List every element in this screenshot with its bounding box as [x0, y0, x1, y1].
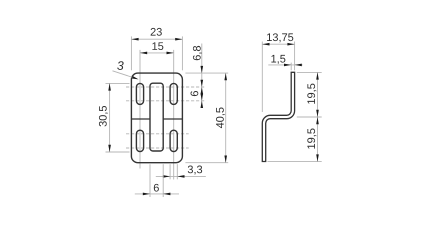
- dim 15 arrow right: [167, 52, 174, 55]
- dim 13,75 arrow right: [287, 43, 294, 46]
- centerline top slots lower arc: [126, 100, 205, 102]
- dim 19,5 extension middle: [297, 116, 322, 118]
- dim 6,8 dim line: [201, 44, 203, 109]
- dim 6 bottom arrow left: [143, 193, 150, 196]
- dim 19,5 upper arrow bottom: [316, 110, 319, 117]
- dim 13,75 arrow left: [262, 43, 269, 46]
- dim 19,5 lower arrow bottom: [316, 154, 319, 161]
- slot bottom-left: [136, 130, 143, 151]
- label 6,8: [193, 46, 202, 60]
- label 1,5: [271, 55, 285, 64]
- centerline left slots vertical: [139, 50, 141, 169]
- label 13,75: [267, 33, 293, 42]
- central channel cutout: [150, 83, 163, 151]
- centerline top slots upper arc: [126, 86, 205, 88]
- plate outline front view: [131, 73, 182, 163]
- dim 23 line: [131, 38, 182, 40]
- dim 23 arrow right: [175, 38, 182, 41]
- dim 23 arrow left: [131, 38, 138, 41]
- slot bottom-right: [170, 130, 177, 151]
- dim 19,5 line: [317, 72, 319, 161]
- dim 3,3 extension left: [169, 164, 171, 179]
- label 19,5 lower: [307, 129, 316, 149]
- dim 6 arrow below mid: [201, 87, 204, 94]
- dim 30,5 line: [109, 83, 111, 152]
- label 15: [152, 42, 163, 50]
- dim 30,5 extension bottom: [106, 151, 130, 153]
- dim 1,5 arrow right: [295, 64, 302, 67]
- dim 19,5 extension top: [297, 71, 322, 73]
- centerline bottom slots lower arc: [126, 147, 189, 149]
- dim 6,8 / 6 / 40,5 shared top extension: [185, 72, 228, 74]
- dim 6 arrow above low: [201, 94, 204, 101]
- label radius 3: [117, 61, 123, 70]
- dim 6,8 arrow above top: [201, 66, 204, 73]
- dim 30,5 extension top: [106, 82, 130, 84]
- dim 15 line: [140, 52, 174, 54]
- label 6 bottom: [154, 184, 159, 192]
- dim 40,5 arrow bottom: [224, 156, 227, 163]
- dim 3,3 arrow left: [163, 175, 170, 178]
- label 40,5: [216, 107, 225, 128]
- dim 19,5 upper arrow top: [316, 72, 319, 79]
- dim 3,3 line: [156, 175, 206, 177]
- dim 13,75 extension left: [261, 42, 263, 113]
- bend line left: [131, 118, 150, 120]
- dim 19,5 extension bottom: [268, 161, 322, 163]
- dim 40,5 bottom extension: [185, 162, 228, 164]
- dim 30,5 arrow top: [108, 83, 111, 90]
- label 23: [151, 28, 162, 36]
- dim 13,75 extension right: [294, 42, 296, 71]
- dim 13,75 line: [262, 43, 294, 45]
- dim 1,5 extension left short: [290, 63, 292, 71]
- dim 30,5 arrow bottom: [108, 145, 111, 152]
- dim 6,8 arrow above mid: [201, 80, 204, 87]
- label 30,5: [99, 106, 108, 127]
- dim 40,5 line: [225, 73, 227, 163]
- dim 6 arrow below low: [201, 101, 204, 108]
- dim 6 bottom extension left: [149, 164, 151, 197]
- dim 23 extension right: [181, 36, 183, 70]
- label 19,5 upper: [307, 84, 316, 104]
- Z profile side view outline: [262, 72, 294, 161]
- centerline bottom slots upper arc: [126, 133, 189, 135]
- dim 40,5 arrow top: [224, 73, 227, 80]
- leader radius 3 arrowhead: [132, 76, 139, 79]
- dim 23 extension left: [130, 36, 132, 70]
- dim 3,3 arrow right: [177, 175, 184, 178]
- dim 6 bottom extension right: [162, 164, 164, 197]
- dim 6 bottom arrow right: [163, 193, 170, 196]
- slot top-right: [170, 83, 177, 104]
- dim 1,5 arrow left: [284, 64, 291, 67]
- bend line right: [163, 118, 182, 120]
- slot top-left: [136, 83, 143, 104]
- dim 3,3 extension right: [176, 164, 178, 179]
- label 3,3: [188, 166, 202, 175]
- dim 6 bottom line: [135, 193, 179, 195]
- leader radius 3 line: [113, 71, 137, 79]
- label 6 right: [191, 91, 199, 96]
- dim 15 arrow left: [140, 52, 147, 55]
- centerline right slots vertical: [173, 50, 175, 180]
- dim 1,5 line: [268, 64, 302, 66]
- dim 19,5 lower arrow top: [316, 117, 319, 124]
